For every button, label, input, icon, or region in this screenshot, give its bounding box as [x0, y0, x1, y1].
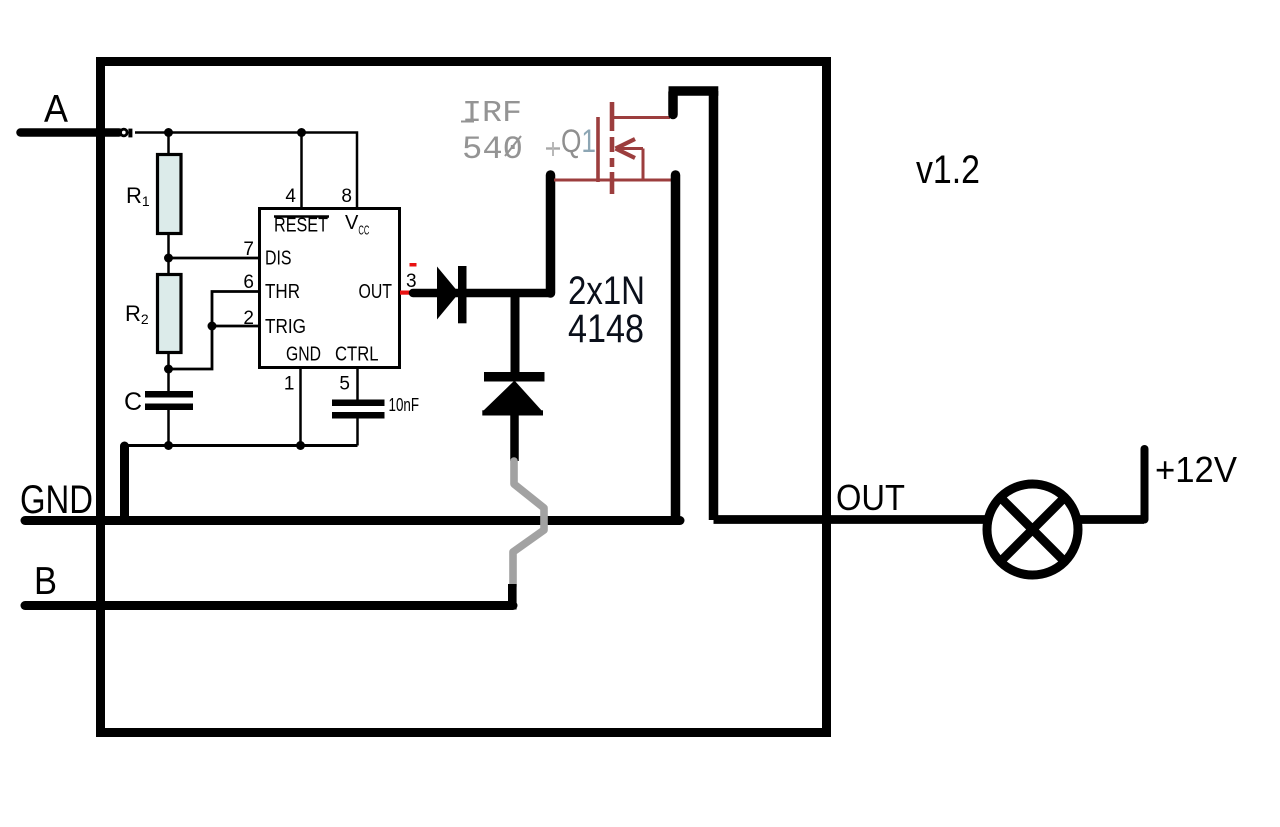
- capacitor C2 10nF: [332, 400, 385, 419]
- svg-text:8: 8: [341, 186, 352, 207]
- svg-text:2: 2: [243, 308, 254, 329]
- junction A/R1: [164, 128, 173, 137]
- svg-text:6: 6: [243, 272, 254, 293]
- wire drain riser to OUT: [709, 91, 719, 520]
- wire A terminal (thick): [21, 128, 120, 137]
- wire 10nF to rail: [356, 419, 359, 446]
- label 2x1N 4148: [568, 269, 645, 351]
- junction pin1/rail: [296, 441, 305, 450]
- wire OUT bus: [714, 515, 1145, 524]
- capacitor C: [145, 391, 193, 410]
- wire A to R1: [167, 133, 170, 155]
- svg-text:RESET: RESET: [274, 215, 328, 237]
- svg-text:TRIG: TRIG: [265, 316, 306, 338]
- svg-text:4148: 4148: [568, 307, 644, 351]
- wire D2 anode: [510, 413, 519, 461]
- wire B link (gray): [513, 461, 544, 586]
- label Q1: [546, 123, 596, 159]
- svg-text:5: 5: [339, 374, 350, 395]
- svg-text:540: 540: [462, 131, 523, 168]
- wire drain top run: [669, 86, 719, 96]
- resistor R2: [158, 275, 182, 353]
- resistor R1: [158, 155, 182, 234]
- gate line: [596, 117, 600, 182]
- svg-text:v1.2: v1.2: [916, 148, 980, 192]
- drain connection: [614, 116, 670, 119]
- wire source to GND: [671, 175, 681, 520]
- IC U1 555 timer body: [260, 209, 400, 368]
- lamp L1: [987, 484, 1078, 575]
- junction pin4: [297, 128, 306, 137]
- wire +12V riser: [1141, 449, 1149, 520]
- wire pin5: [356, 368, 359, 400]
- wire OUT pin3 to diode D1: [413, 289, 550, 298]
- outer enclosure box: [101, 62, 827, 733]
- svg-text:CTRL: CTRL: [335, 344, 379, 366]
- body connection with arrow: [617, 147, 643, 150]
- junction R2/C: [164, 365, 173, 374]
- junction C/rail: [164, 441, 173, 450]
- wire DIS pin7: [169, 257, 260, 260]
- svg-text:C: C: [124, 388, 142, 416]
- svg-text:OUT: OUT: [359, 281, 393, 303]
- junction TRIG: [208, 322, 217, 331]
- wire B riser: [508, 584, 517, 610]
- wire drain stub: [668, 92, 678, 115]
- wire GND bus: [25, 516, 680, 525]
- svg-text:A: A: [44, 88, 68, 131]
- transistor Q1 (IRF540 N-MOSFET): [554, 102, 672, 194]
- svg-text:GND: GND: [286, 344, 321, 366]
- svg-text:B: B: [34, 560, 57, 603]
- svg-text:THR: THR: [265, 281, 300, 303]
- wire THR/TRIG branch: [169, 292, 260, 370]
- diode D2: [482, 372, 544, 416]
- svg-text:7: 7: [243, 239, 254, 260]
- svg-text:10nF: 10nF: [389, 395, 420, 415]
- wire pin4: [300, 133, 303, 209]
- wire R1 to R2: [167, 233, 170, 274]
- svg-text:1: 1: [284, 374, 295, 395]
- wire B bus: [25, 601, 513, 610]
- diode D1: [437, 266, 467, 323]
- svg-text:GND: GND: [20, 478, 93, 522]
- svg-text:4: 4: [285, 186, 296, 207]
- wire rail to GND bus (thick): [120, 446, 129, 519]
- red dash above pin 3: [410, 263, 417, 267]
- svg-text:DIS: DIS: [265, 248, 292, 270]
- channel dashed line: [610, 102, 615, 194]
- ground rail inside box: [122, 444, 358, 447]
- source connection: [554, 179, 672, 182]
- wire C to ground rail: [167, 410, 170, 446]
- connector A: [121, 129, 133, 138]
- wire R2 bottom to C: [167, 352, 170, 392]
- RESET overline: [274, 215, 329, 218]
- svg-text:+12V: +12V: [1155, 449, 1237, 490]
- svg-text:IRF: IRF: [462, 96, 522, 131]
- label IRF 540: [461, 96, 523, 168]
- svg-text:Q1: Q1: [561, 123, 596, 159]
- svg-text:OUT: OUT: [836, 477, 905, 518]
- wire pin1: [299, 368, 302, 446]
- wire TRIG pin2: [212, 325, 259, 328]
- red OUT pin3 stub: [400, 291, 410, 295]
- wire A rail to pin 8: [135, 133, 357, 209]
- wire junction to D2 (riser): [511, 293, 520, 373]
- wire gate riser: [546, 175, 556, 293]
- junction DIS node: [164, 254, 173, 263]
